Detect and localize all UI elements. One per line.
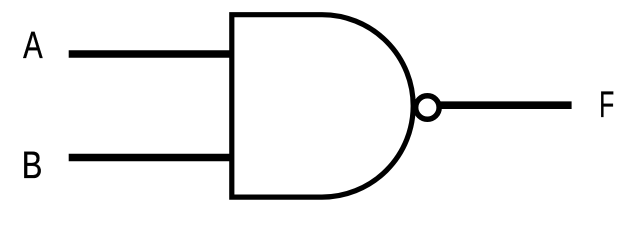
- inversion bubble: [416, 96, 440, 120]
- svg-text:F: F: [599, 84, 614, 125]
- wire F (output lead): [440, 101, 571, 109]
- svg-text:B: B: [22, 144, 43, 187]
- svg-text:A: A: [23, 24, 43, 67]
- NAND gate U1 body: [232, 15, 413, 197]
- wire B (input lead): [69, 154, 232, 162]
- wire A (input lead): [69, 50, 232, 58]
